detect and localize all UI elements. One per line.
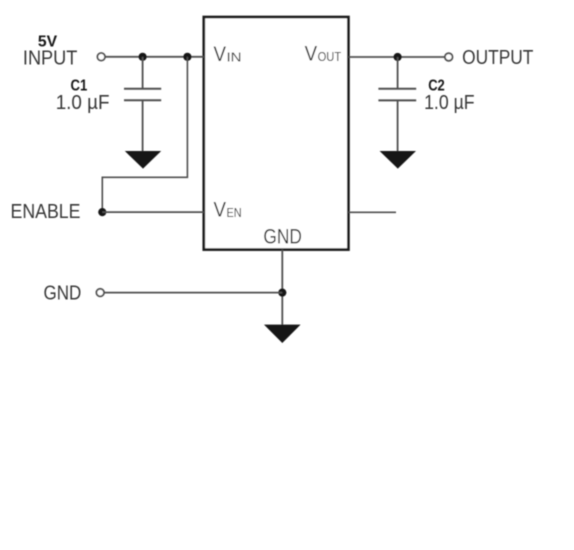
svg-text:IN: IN xyxy=(227,51,242,65)
svg-text:EN: EN xyxy=(227,206,242,220)
node junction at C2 xyxy=(394,53,402,61)
wire input net xyxy=(106,56,204,58)
pin label VOUT xyxy=(305,43,342,66)
node OUTPUT terminal xyxy=(445,53,453,61)
wire GND pin lead xyxy=(281,250,283,325)
svg-text:1.0 µF: 1.0 µF xyxy=(56,92,110,114)
node GND terminal xyxy=(96,289,104,297)
svg-text:GND: GND xyxy=(44,283,82,305)
svg-text:V: V xyxy=(214,198,227,221)
node junction at C1 xyxy=(139,53,147,61)
svg-text:OUTPUT: OUTPUT xyxy=(462,47,533,69)
node INPUT terminal xyxy=(97,53,105,61)
wire GND terminal to junction xyxy=(104,292,282,294)
ground xyxy=(125,151,161,169)
wire output net xyxy=(348,56,444,58)
wire C2 top lead xyxy=(397,57,399,88)
svg-text:1.0 µF: 1.0 µF xyxy=(424,92,475,114)
svg-text:V: V xyxy=(305,43,318,66)
svg-text:V: V xyxy=(214,43,227,66)
svg-text:GND: GND xyxy=(263,225,302,248)
node ENABLE junction xyxy=(98,208,106,216)
svg-text:ENABLE: ENABLE xyxy=(11,201,81,223)
voltage regulator IC body xyxy=(204,17,349,250)
wire C1 bottom lead xyxy=(142,100,144,152)
pin label VEN xyxy=(214,198,242,221)
capacitor C1 xyxy=(124,89,161,101)
node junction at enable tie xyxy=(183,53,191,61)
node GND junction xyxy=(278,289,286,297)
svg-text:INPUT: INPUT xyxy=(23,47,78,69)
svg-text:OUT: OUT xyxy=(318,50,342,64)
wire C2 bottom lead xyxy=(397,100,399,152)
wire enable to VEN pin xyxy=(102,211,204,213)
pin label VIN xyxy=(214,43,242,66)
wire enable tie from input to enable node xyxy=(102,57,187,212)
ground xyxy=(380,151,416,169)
ground xyxy=(264,325,301,343)
wire C1 top lead xyxy=(142,57,144,88)
wire NC stub on right side xyxy=(348,211,396,213)
capacitor C2 xyxy=(378,89,416,101)
